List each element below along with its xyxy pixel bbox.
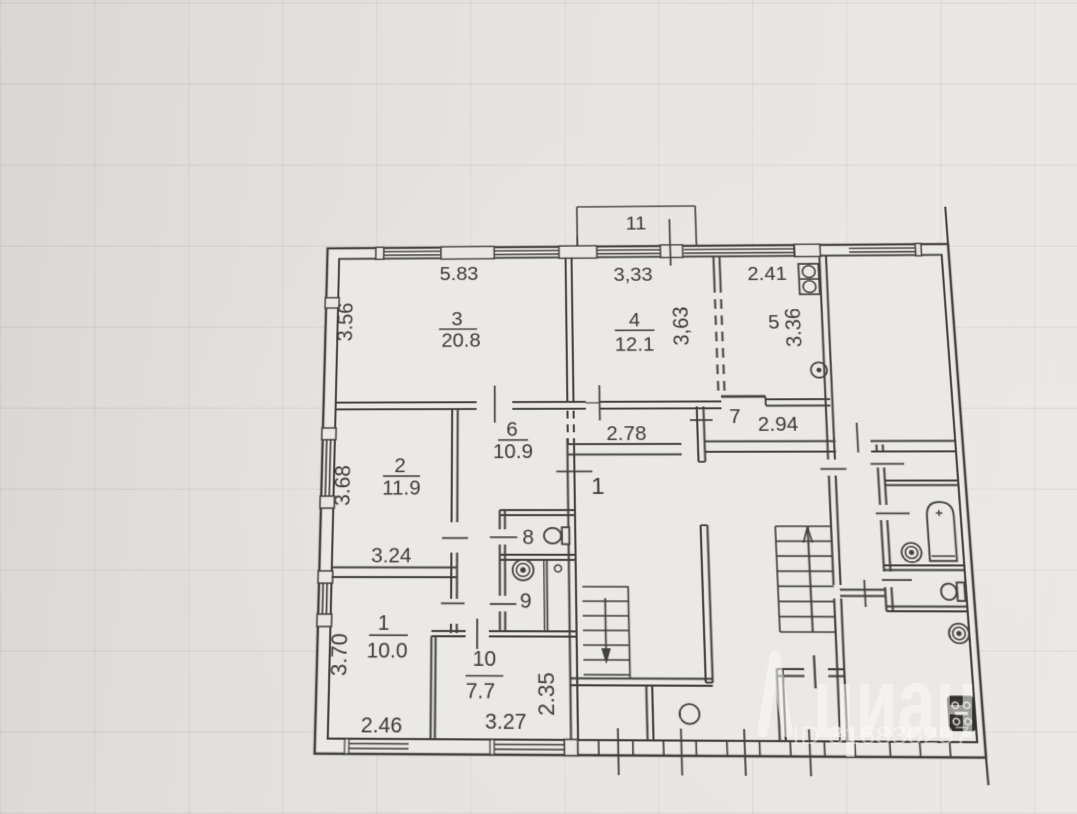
stairs right treads <box>775 525 830 527</box>
wall rooms8-9 left <box>499 510 501 529</box>
garbage chute hall <box>679 704 699 724</box>
wire inner boundary <box>328 255 977 742</box>
tick door room9 <box>490 603 517 605</box>
pier box top wall <box>376 247 384 259</box>
wall stub corridor7 <box>697 406 699 461</box>
pier box left wall room1 top <box>318 571 333 583</box>
tick bottom wall 1 <box>617 728 620 775</box>
wall bath block left <box>875 445 877 453</box>
wall rooms9-10 top <box>431 630 465 632</box>
washing machine room9 <box>513 560 534 581</box>
tick door stub corridor7 <box>690 419 713 421</box>
bottom wall segment band <box>577 740 579 755</box>
tick door room3 <box>494 386 496 423</box>
tick door toilet <box>882 579 912 581</box>
wall room9 divider <box>543 560 546 631</box>
wall rooms3-4 bottom <box>336 401 477 403</box>
tick door room2 <box>442 537 468 539</box>
tick door hall-strip <box>820 468 846 470</box>
floor fill <box>315 244 986 758</box>
wall rooms3-4 <box>566 257 568 401</box>
sink kitchen <box>811 362 828 377</box>
wall hall top right stairwell bottom <box>705 440 836 442</box>
wall below left stairs <box>570 677 712 680</box>
wire outer boundary <box>315 244 986 758</box>
toilet bathroom right <box>941 584 958 600</box>
wall rooms8-9 divider <box>500 554 576 556</box>
tick door stairwell <box>857 423 859 453</box>
wall rooms4-5 dashed <box>712 256 715 283</box>
pier box left wall room3 <box>325 298 339 308</box>
tick door room10 <box>476 619 478 649</box>
pier box left wall room2 top <box>322 428 336 440</box>
tick door hall left <box>556 470 592 472</box>
wall kitchen-stairwell and hall right <box>817 256 830 460</box>
wall room10 left <box>430 636 433 739</box>
pier box left wall room1 bottom <box>317 614 332 626</box>
wall corridor6-7 dashed <box>566 411 568 443</box>
tick bottom wall 2 <box>681 729 682 776</box>
wall garbage room left <box>646 684 647 740</box>
tick door strip top <box>871 463 905 465</box>
wall corridor6-hall room10 right <box>567 438 571 740</box>
bathtub <box>926 502 957 561</box>
window W5 top wall stairwell <box>849 247 915 249</box>
stairs left down arrow <box>605 598 606 655</box>
tick door bathroom <box>876 512 910 514</box>
balcony door pier <box>660 245 683 258</box>
wall room8 top <box>500 509 575 511</box>
window bottom wall room1 <box>349 743 409 745</box>
tick bottom wall 4 <box>809 729 811 776</box>
window bottom wall room10 <box>495 743 565 745</box>
sink bathroom <box>901 543 922 562</box>
tick bottom wall 3 <box>744 729 746 776</box>
pier box top wall kitchen <box>794 244 821 257</box>
balcony 11 outline <box>576 207 579 247</box>
wall kitchen bottom <box>721 395 765 398</box>
stairs right up arrow head <box>803 527 809 542</box>
pier box left wall room2 bottom <box>320 496 335 508</box>
tick door small room <box>814 655 816 688</box>
toilet room8 <box>544 528 561 543</box>
wall rooms2-1 <box>332 566 457 568</box>
wall toilet bottom <box>886 605 967 607</box>
sink lower right <box>948 624 969 644</box>
stove kitchen <box>798 264 820 295</box>
tick door strip bottom <box>864 580 866 607</box>
window left wall room1 <box>321 583 324 614</box>
wall hall top left <box>567 443 681 445</box>
window W3 top wall room4 balcony <box>597 249 661 251</box>
pier box top wall room3 <box>441 246 494 259</box>
wire right wall extension bottom <box>986 758 988 786</box>
wall small room left <box>777 669 780 741</box>
wall small room top <box>777 668 804 670</box>
drain room9 <box>554 565 561 572</box>
wire right wall extension top <box>945 207 948 244</box>
stairs right center line <box>807 526 812 632</box>
wall strip bottom <box>840 589 885 591</box>
window W1 top wall room3 <box>383 250 441 252</box>
svg-text:ID 316830297: ID 316830297 <box>792 722 970 750</box>
pier box top wall room3-4 <box>559 246 597 259</box>
wall bath bottom <box>884 564 965 566</box>
tick door room1 <box>441 602 464 604</box>
wall bath top <box>885 480 958 482</box>
window W2 top wall room3 <box>494 249 559 251</box>
wall hall partition <box>701 525 706 682</box>
tick door room4 <box>598 385 601 420</box>
pier box bottom wall <box>564 739 578 755</box>
window W4 top wall room4-5 <box>684 248 794 251</box>
pier box top wall right <box>915 243 922 255</box>
tick door room8 <box>490 536 518 538</box>
window left wall room2 <box>325 440 326 496</box>
stove icon electric <box>948 697 975 730</box>
balcony door tick <box>669 219 670 266</box>
stairs left treads <box>582 586 628 588</box>
tick above wall3-4 <box>576 236 578 246</box>
wall corridor6 left <box>451 409 454 522</box>
